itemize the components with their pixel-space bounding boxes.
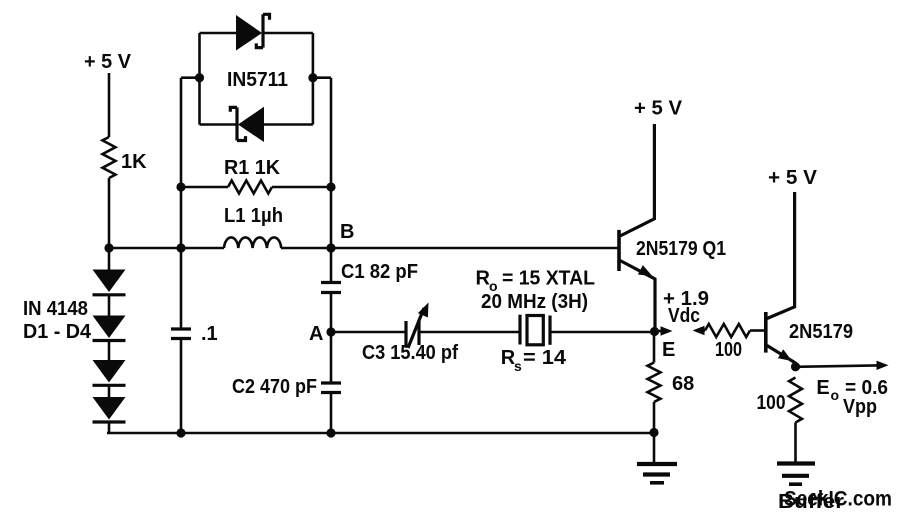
svg-text:.1: .1 — [201, 323, 218, 345]
wire D3-D4 — [108, 385, 111, 397]
diode IN5711 top schottky — [200, 32, 237, 35]
svg-text:2N5179: 2N5179 — [789, 321, 853, 343]
wire stub loop-right to column — [313, 76, 331, 79]
wire output — [796, 365, 878, 366]
wire D1-D2 — [108, 295, 111, 316]
wire 100 to ground — [794, 423, 797, 464]
wire C1 to A to C2 — [330, 293, 333, 384]
svg-text:1K: 1K — [121, 151, 147, 173]
node B — [326, 243, 335, 252]
resistor 68 — [648, 363, 661, 403]
svg-text:= 14: = 14 — [523, 347, 567, 369]
svg-text:Vpp: Vpp — [843, 396, 877, 418]
node R1 left — [176, 182, 185, 191]
wire main rail left segment — [109, 247, 224, 250]
resistor R1 — [228, 181, 272, 194]
svg-text:E: E — [816, 377, 829, 399]
wire loop right vertical — [312, 33, 315, 125]
node loop left — [195, 73, 204, 82]
svg-text:D1 - D4: D1 - D4 — [23, 321, 92, 343]
svg-text:E: E — [662, 339, 675, 361]
svg-text:100: 100 — [757, 392, 786, 414]
capacitor C2 — [321, 383, 341, 393]
svg-text:+ 5 V: + 5 V — [768, 167, 818, 189]
svg-text:C3 15.40 pf: C3 15.40 pf — [362, 342, 458, 364]
svg-text:+ 5 V: + 5 V — [84, 51, 132, 73]
capacitor C1 — [321, 283, 341, 293]
wire C2 to rail — [330, 393, 333, 434]
diode D3 — [93, 360, 126, 383]
svg-text:L1 1µh: L1 1µh — [224, 205, 283, 227]
svg-text:o: o — [831, 387, 840, 403]
svg-text:= 15 XTAL: = 15 XTAL — [502, 268, 595, 290]
diode IN5711 bottom schottky — [200, 123, 238, 126]
wire D4 to bottom rail — [108, 422, 111, 433]
resistor 100 horizontal — [705, 324, 750, 337]
wire left column down to D1 — [108, 248, 111, 270]
wire R1 right lead — [272, 186, 331, 189]
diode D4 — [93, 397, 126, 420]
node buffer emitter — [791, 362, 800, 371]
svg-text:s: s — [514, 358, 522, 374]
diode D2 — [93, 316, 126, 339]
wire loop left vertical — [198, 33, 201, 125]
node junction .1 column — [176, 243, 185, 252]
svg-text:+ 5 V: + 5 V — [634, 98, 683, 120]
capacitor C3 variable — [406, 321, 419, 348]
wire E to 68 — [653, 332, 656, 363]
node .1 bottom rail — [176, 428, 185, 437]
svg-text:A: A — [309, 323, 323, 345]
node E — [650, 327, 659, 336]
transistor buffer 2N5179 — [764, 312, 768, 353]
svg-text:IN5711: IN5711 — [227, 69, 288, 91]
ground E column — [637, 462, 677, 466]
wire E arrow right — [654, 330, 663, 333]
diode D1 — [93, 270, 126, 293]
node C2 bottom rail — [326, 428, 335, 437]
wire to ground E column — [653, 433, 656, 464]
wire 1K to main rail — [108, 178, 111, 248]
node junction left column main rail — [104, 243, 113, 252]
wire stub loop-left to column — [181, 76, 200, 79]
svg-text:68: 68 — [672, 373, 694, 395]
wire A row to C3 — [331, 331, 406, 334]
wire +5V left vertical — [108, 73, 111, 137]
svg-text:2N5179 Q1: 2N5179 Q1 — [636, 238, 726, 260]
wire 100 to buffer base — [750, 329, 764, 332]
node loop right — [308, 73, 317, 82]
svg-text:B: B — [340, 221, 354, 243]
capacitor .1 — [171, 329, 191, 339]
ground buffer — [777, 461, 815, 465]
wire D2-D3 — [108, 341, 111, 361]
node A — [326, 327, 335, 336]
svg-text:Vdc: Vdc — [668, 305, 700, 327]
crystal Y1 20MHz — [518, 315, 521, 345]
wire C3 to crystal — [419, 331, 520, 334]
svg-text:C2 470 pF: C2 470 pF — [232, 376, 317, 398]
wire left inner vertical column — [180, 78, 183, 433]
inductor L1 — [224, 237, 281, 248]
svg-text:Buffer: Buffer — [778, 491, 844, 513]
wire 68 to rail — [653, 402, 656, 433]
svg-text:R1 1K: R1 1K — [224, 157, 281, 179]
svg-text:C1 82 pF: C1 82 pF — [341, 261, 418, 283]
resistor 1K left vertical — [103, 137, 116, 178]
arrow left into 100 — [693, 326, 705, 335]
wire B to C1 — [330, 248, 333, 283]
node 68 bottom rail — [649, 428, 658, 437]
svg-text:IN 4148: IN 4148 — [23, 298, 88, 320]
wire right inner vertical (to B) — [330, 78, 333, 248]
wire R1 left lead — [181, 186, 228, 189]
resistor 100 vertical — [789, 378, 802, 423]
transistor Q1 2N5179 — [617, 230, 621, 271]
svg-text:20 MHz (3H): 20 MHz (3H) — [481, 291, 588, 313]
wire main rail B to Q1 base — [281, 247, 618, 250]
svg-text:100: 100 — [715, 339, 742, 361]
wire bottom rail — [107, 432, 654, 435]
wire crystal to E — [550, 331, 654, 334]
node R1 right — [326, 182, 335, 191]
